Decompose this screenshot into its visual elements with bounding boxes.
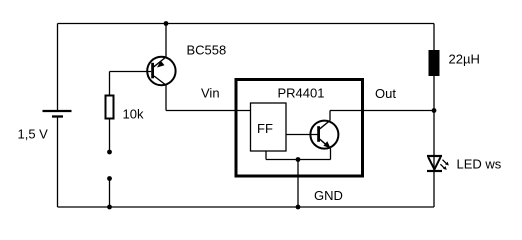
label 22µH	[449, 52, 480, 67]
LED D1 light arrow 2	[440, 164, 446, 170]
transistor Q2 internal circle	[310, 121, 338, 149]
label FF	[257, 121, 273, 136]
svg-text:LED ws: LED ws	[457, 157, 502, 172]
LED D1 light arrow 1	[443, 160, 449, 166]
LED D1 cathode bar	[427, 170, 442, 172]
node open contact upper	[107, 150, 112, 155]
svg-text:1,5 V: 1,5 V	[18, 127, 49, 142]
wire node to bottom rail	[109, 179, 111, 208]
flip-flop FF block	[251, 103, 287, 151]
wire bottom rail	[58, 206, 435, 208]
svg-text:Out: Out	[375, 86, 396, 101]
node junction Out	[432, 108, 437, 113]
label Out	[375, 86, 396, 101]
inductor L1 22uH body	[429, 50, 440, 76]
transistor Q1 emitter diagonal with PNP arrow	[154, 57, 166, 68]
wire Q2 collector riser	[329, 111, 331, 121]
label BC558	[187, 43, 227, 58]
svg-text:22µH: 22µH	[449, 52, 480, 67]
wire Q1 base lead	[110, 71, 152, 73]
op-amp U1 PR4401 package outline	[236, 80, 363, 177]
wire left rail lower	[57, 118, 59, 207]
transistor Q2 emitter diagonal with NPN arrow	[320, 139, 331, 148]
node junction top (emitter tap)	[164, 21, 169, 26]
wire base to resistor	[109, 72, 111, 96]
wire right rail top	[433, 24, 435, 51]
wire top rail	[58, 23, 435, 25]
label PR4401	[278, 86, 325, 101]
wire FF output to Q2 base	[286, 134, 318, 136]
wire resistor to node	[109, 119, 111, 153]
svg-text:Vin: Vin	[201, 86, 220, 101]
battery B1 1,5V short plate	[52, 115, 63, 117]
wire FF ground lead	[265, 151, 267, 160]
svg-text:PR4401: PR4401	[278, 86, 325, 101]
node junction bottom left	[107, 205, 112, 210]
label 1,5 V	[18, 127, 49, 142]
transistor Q1 BC558 circle	[147, 57, 175, 85]
svg-text:GND: GND	[314, 188, 343, 203]
node junction GND on bottom rail	[296, 205, 301, 210]
wire Q1 collector to Vin	[165, 85, 167, 110]
node junction internal ground	[296, 157, 301, 162]
wire right rail middle	[433, 76, 435, 207]
wire left rail upper	[57, 24, 59, 111]
battery B1 1,5V long plate	[43, 110, 72, 112]
wire internal ground bus	[266, 159, 331, 161]
transistor Q1 base bar	[151, 63, 154, 79]
label 10k	[123, 107, 144, 122]
wire Q2 emitter drop	[330, 149, 332, 160]
transistor Q2 base bar	[317, 126, 320, 142]
wire Out lead	[330, 110, 434, 112]
resistor R1 10k body	[106, 96, 114, 119]
LED D1 anode bar	[427, 155, 442, 157]
wire GND pin drop	[297, 160, 299, 208]
transistor Q2 collector diagonal	[320, 121, 330, 129]
node open contact lower	[107, 176, 112, 181]
wire Vin lead	[166, 110, 251, 112]
transistor Q1 collector diagonal	[154, 76, 167, 86]
svg-text:10k: 10k	[123, 107, 144, 122]
label Vin	[201, 86, 220, 101]
label GND	[314, 188, 343, 203]
wire emitter drop Q1	[165, 24, 167, 58]
svg-text:FF: FF	[257, 121, 273, 136]
svg-text:BC558: BC558	[187, 43, 227, 58]
label LED ws	[457, 157, 502, 172]
LED D1 triangle	[428, 157, 440, 169]
